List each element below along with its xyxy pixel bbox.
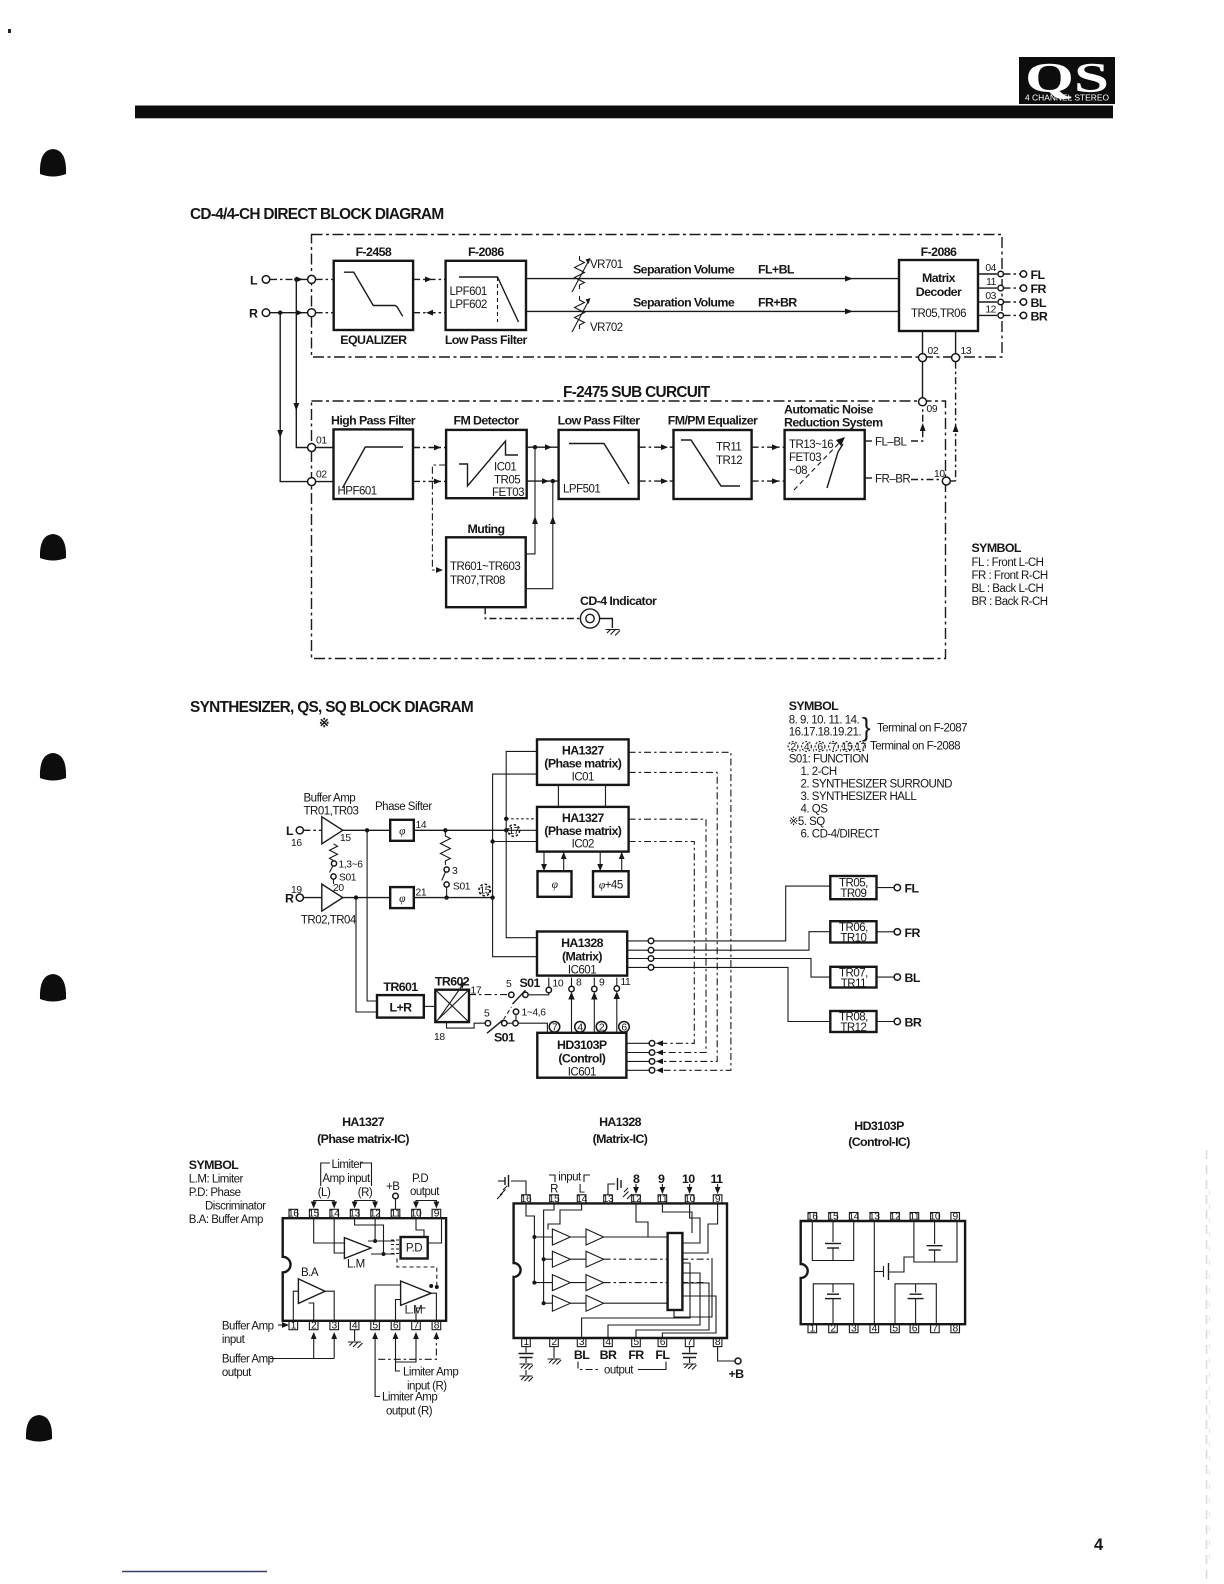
wire LPF to matrix (FR+BR) <box>526 310 899 312</box>
HA1327 body <box>283 1218 446 1321</box>
svg-text:11: 11 <box>909 1212 920 1223</box>
junction dashed tap to IC02 <box>504 817 508 821</box>
svg-text:4: 4 <box>804 742 810 753</box>
svg-text:1,3~6: 1,3~6 <box>339 860 364 871</box>
svg-text:BL: BL <box>905 971 921 985</box>
TR06,TR10 block / FR <box>830 921 920 944</box>
labels 8 9 10 11 with arrows <box>633 1172 723 1194</box>
svg-text:Reduction System: Reduction System <box>784 416 883 430</box>
svg-text:VR702: VR702 <box>590 322 623 334</box>
terminal list on F-2088 <box>788 741 960 754</box>
svg-text:TR09: TR09 <box>840 888 866 900</box>
svg-text:1: 1 <box>291 1320 297 1331</box>
op-amp L.M lower <box>401 1281 432 1317</box>
svg-text:11: 11 <box>391 1209 402 1220</box>
node 17 (circled) <box>508 825 520 837</box>
dashed feedback path <box>397 1259 437 1286</box>
symbol legend pinouts <box>189 1158 266 1226</box>
TR602 (variable mixer) <box>434 975 482 1044</box>
svg-text:17: 17 <box>855 742 866 753</box>
svg-text:2: 2 <box>311 1320 317 1331</box>
svg-text:TR02,TR04: TR02,TR04 <box>301 915 357 927</box>
svg-text:LPF602: LPF602 <box>450 299 487 311</box>
bottom pins 1..8 <box>808 1323 960 1334</box>
wire pin1 to B.A <box>293 1291 298 1321</box>
svg-text:※: ※ <box>319 716 329 730</box>
op-amp L.M upper <box>344 1238 371 1271</box>
svg-text:2: 2 <box>790 742 796 753</box>
svg-text:Buffer Amp: Buffer Amp <box>304 793 356 805</box>
IC02 right wire 2 to HD3103P <box>629 842 695 1044</box>
wire FM/PM to ANRS (bottom) <box>752 480 785 482</box>
svg-text:10: 10 <box>553 979 564 990</box>
svg-text:15: 15 <box>308 1209 319 1220</box>
cap + ground pin7 <box>682 1347 697 1370</box>
svg-text:FR: FR <box>628 1348 644 1362</box>
pin 8 terminal with arrow <box>568 978 582 1033</box>
potentiometer VR702 <box>572 296 623 334</box>
junction tap to IC02 lower <box>490 839 494 843</box>
svg-text:P.D: P.D <box>406 1243 422 1255</box>
svg-text:(Phase matrix-IC): (Phase matrix-IC) <box>317 1132 409 1146</box>
svg-text:(R): (R) <box>358 1187 373 1199</box>
svg-text:IC601: IC601 <box>568 1067 596 1079</box>
svg-text:,: , <box>853 743 855 754</box>
svg-text:IC01: IC01 <box>572 772 594 784</box>
wire L.M lower out to pin8 <box>431 1293 436 1321</box>
wire B.A out <box>325 1291 334 1321</box>
wire FM/PM to ANRS (top) <box>752 446 785 448</box>
svg-text:02: 02 <box>928 346 939 357</box>
junction R on vertical <box>490 895 494 899</box>
svg-text:FR : Front R-CH: FR : Front R-CH <box>972 570 1048 582</box>
wire HPF to FM det (top) <box>413 447 446 449</box>
svg-text:16: 16 <box>521 1194 532 1205</box>
top pins 16..9 <box>807 1212 960 1223</box>
vertical R to TR601 <box>356 898 377 1012</box>
junction L on vertical <box>504 828 508 832</box>
output pin 12 / BR <box>978 304 1048 323</box>
svg-text:8. 9. 10. 11. 14.: 8. 9. 10. 11. 14. <box>789 715 860 727</box>
svg-text:EQUALIZER: EQUALIZER <box>340 333 407 347</box>
wire node-L to equalizer <box>316 278 334 280</box>
svg-text:~08: ~08 <box>789 465 807 477</box>
wire matrix pin02 down <box>922 331 924 354</box>
wire HA1328 out1 to TR05 <box>654 886 831 941</box>
node 13 <box>952 354 960 362</box>
wire pin7 stub <box>416 1308 426 1321</box>
svg-text:15: 15 <box>549 1194 560 1205</box>
varicap cell top-left <box>812 1221 853 1261</box>
symbol legend diagram 1 <box>972 541 1048 608</box>
svg-text:4: 4 <box>872 1323 878 1334</box>
svg-text:SYMBOL: SYMBOL <box>189 1158 239 1172</box>
svg-text:input: input <box>558 1172 582 1184</box>
svg-text:TR601: TR601 <box>383 980 418 994</box>
svg-text:F-2475 SUB CURCUIT: F-2475 SUB CURCUIT <box>563 384 711 401</box>
svg-text:SYMBOL: SYMBOL <box>972 541 1022 555</box>
phase shifter box R <box>390 887 414 908</box>
svg-text:6. CD-4/DIRECT: 6. CD-4/DIRECT <box>801 829 880 841</box>
node 10 <box>942 477 950 485</box>
junction at resistor 3 <box>443 828 447 832</box>
label (R) with arrows to pins 13,12 <box>352 1187 378 1209</box>
svg-text:10: 10 <box>682 1172 695 1186</box>
right edge scan artifact <box>1206 1150 1208 1584</box>
ground pin2 <box>548 1347 562 1365</box>
svg-text:,: , <box>812 743 814 754</box>
svg-text:2: 2 <box>551 1337 557 1348</box>
terminal 4 (circled) <box>575 1022 586 1034</box>
svg-text:6: 6 <box>817 742 823 753</box>
wire node01 to HPF <box>316 447 334 449</box>
matrix amp row 4 <box>552 1295 603 1311</box>
svg-text:13: 13 <box>349 1209 360 1220</box>
left vertical bus R (to IC01 / IC02 / HA1328) <box>493 774 537 957</box>
svg-text:φ: φ <box>399 893 406 905</box>
svg-text:Decoder: Decoder <box>916 285 962 299</box>
svg-text:16.17.18.19.21.: 16.17.18.19.21. <box>789 727 862 739</box>
wire phase shifter L to node 17 <box>414 829 506 831</box>
output bracket <box>578 1362 666 1377</box>
svg-text:5: 5 <box>892 1323 898 1334</box>
svg-text:(Control): (Control) <box>558 1052 605 1066</box>
buffer amp TR02,TR04 (triangle) <box>303 897 321 899</box>
svg-text:3: 3 <box>452 866 458 877</box>
svg-text:TR601~TR603: TR601~TR603 <box>450 561 520 573</box>
high pass filter <box>331 414 416 500</box>
IC01 right wire 1 to HD3103P <box>629 752 731 1070</box>
svg-text:7: 7 <box>831 742 837 753</box>
arrows IC02 to phi boxes <box>541 852 625 872</box>
svg-text:+B: +B <box>729 1367 745 1381</box>
svg-text:LPF601: LPF601 <box>450 286 487 298</box>
svg-text:R: R <box>249 307 258 321</box>
cap + ground at pin 13 <box>608 1178 632 1199</box>
varicap cell bottom-left <box>813 1284 853 1324</box>
TR601 L+R block <box>377 980 424 1018</box>
summing block <box>668 1233 683 1310</box>
svg-text:7: 7 <box>413 1320 419 1331</box>
svg-text:FM Detector: FM Detector <box>454 414 520 428</box>
svg-text:HA1327: HA1327 <box>562 744 605 758</box>
svg-text:5: 5 <box>372 1320 378 1331</box>
wire pin2 stub <box>309 1303 314 1321</box>
node L on board edge <box>308 275 316 283</box>
svg-text:L.M: L.M <box>405 1305 423 1317</box>
automatic noise reduction system <box>784 403 883 500</box>
input bus pin16 <box>526 1203 552 1282</box>
muting block <box>446 522 526 607</box>
svg-text:10: 10 <box>684 1194 695 1205</box>
svg-text:9: 9 <box>599 978 605 989</box>
label P.D output with arrows to pins 10,9 <box>410 1173 440 1209</box>
node R on board edge <box>308 309 316 317</box>
top pins 16..9 <box>288 1209 441 1220</box>
svg-text:01: 01 <box>316 436 327 447</box>
label input bracket <box>549 1172 590 1184</box>
wire L drop to node 01 <box>296 279 307 447</box>
output wire pin4 BR <box>608 1273 700 1338</box>
svg-text:15: 15 <box>479 886 490 897</box>
svg-text:output: output <box>222 1367 252 1379</box>
svg-text:L: L <box>250 274 258 288</box>
FM/PM equalizer <box>668 414 758 500</box>
svg-text:02: 02 <box>316 470 327 481</box>
varicap cell top-right <box>914 1221 957 1262</box>
footer blue rule <box>122 1571 267 1573</box>
wire R drop to node 02 <box>280 313 307 482</box>
svg-text:,: , <box>799 743 801 754</box>
svg-text:FET03: FET03 <box>789 452 821 464</box>
svg-text:TR11: TR11 <box>716 442 741 454</box>
wire node-R to equalizer <box>316 312 334 314</box>
phi+45 box <box>593 871 629 897</box>
svg-text:12: 12 <box>370 1209 381 1220</box>
cap + double ground pin1 <box>519 1347 534 1382</box>
svg-text:BR: BR <box>905 1016 922 1030</box>
svg-text:output: output <box>604 1365 634 1377</box>
wire node02 to node09 <box>922 362 924 398</box>
svg-text:8: 8 <box>633 1172 640 1186</box>
svg-text:Buffer Amp: Buffer Amp <box>222 1321 274 1333</box>
svg-text:S01: S01 <box>494 1031 515 1045</box>
svg-text:,: , <box>826 743 828 754</box>
svg-text:2. SYNTHESIZER SURROUND: 2. SYNTHESIZER SURROUND <box>801 779 953 791</box>
input bus pin15 R <box>544 1203 554 1303</box>
svg-text:1. 2-CH: 1. 2-CH <box>801 766 837 778</box>
wire pin13 junction <box>355 1218 384 1254</box>
svg-text:5: 5 <box>484 1009 490 1020</box>
svg-text:CD-4 Indicator: CD-4 Indicator <box>580 594 657 608</box>
corner speck <box>8 29 11 33</box>
svg-text:4: 4 <box>352 1320 358 1331</box>
svg-text:FET03: FET03 <box>492 487 524 499</box>
HD3103P control <box>537 1033 626 1079</box>
wire ANRS FL-BL out <box>865 440 872 442</box>
svg-text:BL: BL <box>574 1348 590 1362</box>
node 01 on sub board edge <box>308 444 316 452</box>
node 15 (circled) <box>479 884 491 896</box>
svg-text:HA1327: HA1327 <box>342 1115 385 1129</box>
svg-text:(Matrix-IC): (Matrix-IC) <box>593 1132 648 1146</box>
svg-text:P.D: P.D <box>412 1173 428 1185</box>
wire HA1328 out3 to TR07 <box>654 959 831 978</box>
wire EQ to LPF (top) <box>413 278 446 280</box>
switch blade S01 left <box>330 866 333 873</box>
svg-text:Matrix: Matrix <box>922 271 956 285</box>
svg-text:14: 14 <box>576 1194 587 1205</box>
svg-text:Terminal on F-2088: Terminal on F-2088 <box>870 741 960 753</box>
svg-text:4: 4 <box>605 1337 611 1348</box>
terminal 6 (circled) <box>619 1022 630 1034</box>
svg-text:6: 6 <box>393 1320 399 1331</box>
svg-text:S01: S01 <box>339 873 357 884</box>
svg-text:HA1328: HA1328 <box>599 1115 642 1129</box>
buffer amp TR01,TR03 (triangle) <box>303 829 321 831</box>
switch S01 lower <box>447 1007 547 1045</box>
wire switch lower to pin 7 <box>518 1023 547 1033</box>
svg-text:(Phase matrix): (Phase matrix) <box>544 824 621 838</box>
svg-text:TR11: TR11 <box>841 978 866 990</box>
svg-text:03: 03 <box>985 291 996 302</box>
svg-text:1~4,6: 1~4,6 <box>522 1008 547 1019</box>
svg-text:TR10: TR10 <box>840 933 866 945</box>
svg-text:HD3103P: HD3103P <box>854 1119 904 1133</box>
svg-text:09: 09 <box>927 404 938 415</box>
svg-text:IC01: IC01 <box>494 462 516 474</box>
left vertical bus L (to IC01 / HA1328) <box>506 751 537 937</box>
wire summing bottom <box>674 1258 712 1317</box>
svg-text:BR : Back R-CH: BR : Back R-CH <box>972 596 1048 608</box>
bottom pins 1..8 <box>522 1337 722 1348</box>
svg-text:6: 6 <box>912 1323 918 1334</box>
svg-text:18: 18 <box>434 1032 445 1043</box>
wire HA1328 out4 to TR08 <box>654 967 831 1021</box>
svg-text:TR05,TR06: TR05,TR06 <box>911 308 966 320</box>
svg-text:R: R <box>285 892 294 906</box>
IC01 right wire 2 to HD3103P <box>629 772 718 1061</box>
svg-text:LPF501: LPF501 <box>563 484 600 496</box>
svg-text:(L): (L) <box>318 1187 331 1199</box>
top wires pins 11,10,9 <box>662 1203 692 1233</box>
svg-text:FL: FL <box>905 882 920 896</box>
svg-text:3: 3 <box>579 1337 585 1348</box>
wire node02 to HPF <box>316 481 334 483</box>
svg-text:CD-4/4-CH DIRECT BLOCK DIAGRAM: CD-4/4-CH DIRECT BLOCK DIAGRAM <box>190 206 443 223</box>
svg-text:4: 4 <box>1094 1536 1104 1554</box>
svg-text:Low Pass Filter: Low Pass Filter <box>445 333 528 347</box>
HA1328 matrix <box>537 932 627 977</box>
wire FMdet to LPF501 (top) <box>527 446 559 448</box>
node 02 on sub board edge <box>308 478 316 486</box>
svg-text:Limiter Amp: Limiter Amp <box>403 1367 458 1379</box>
wire TR602 to switch S01 (pin 17) <box>469 994 508 996</box>
svg-text:7: 7 <box>932 1323 938 1334</box>
wire pin12 down <box>636 1203 648 1237</box>
wire matrix pin13 down <box>955 331 957 354</box>
svg-text:φ: φ <box>399 826 406 838</box>
svg-text:F-2086: F-2086 <box>468 245 504 259</box>
board F-2087 outline (upper dash-dot box) <box>312 235 1003 358</box>
svg-text:R: R <box>550 1184 558 1196</box>
wire phase shifter R to vertical <box>414 897 493 899</box>
resistor to switch S01 (left) <box>330 844 338 861</box>
node 02 <box>919 354 927 362</box>
svg-text:16: 16 <box>291 838 302 849</box>
svg-text:FM/PM Equalizer: FM/PM Equalizer <box>668 414 758 428</box>
svg-text:Low Pass Filter: Low Pass Filter <box>558 414 641 428</box>
label buffer amp input <box>222 1321 289 1347</box>
output pin 03 / BL <box>978 291 1047 310</box>
wire FMdet to muting left <box>432 465 446 570</box>
svg-text:12: 12 <box>985 304 996 315</box>
svg-text:output: output <box>410 1186 440 1198</box>
binder blob 5 <box>26 1415 52 1442</box>
header rule bar <box>135 106 1113 119</box>
svg-text:B.A: B.A <box>301 1267 319 1279</box>
svg-text:4. QS: 4. QS <box>801 804 829 816</box>
wire LPF501 to FM/PM EQ (top) <box>639 446 674 448</box>
svg-text:P.D: Phase: P.D: Phase <box>189 1187 241 1199</box>
wire pin8 to +B <box>718 1347 745 1381</box>
center FET <box>874 1221 914 1324</box>
input wire pin14 L <box>548 1203 582 1229</box>
svg-text:16: 16 <box>288 1209 299 1220</box>
contact 3 <box>444 867 449 872</box>
svg-text:BL: BL <box>1031 296 1047 310</box>
svg-text:FL+BL: FL+BL <box>758 263 795 277</box>
svg-text:Separation Volume: Separation Volume <box>633 296 735 310</box>
svg-text:,: , <box>839 743 841 754</box>
wire muting bottom tap <box>526 481 553 589</box>
svg-text:L: L <box>286 824 294 838</box>
switch blade S01 mid <box>442 872 446 881</box>
svg-text:B.A: Buffer Amp: B.A: Buffer Amp <box>189 1214 263 1226</box>
svg-text:HPF601: HPF601 <box>338 486 377 498</box>
svg-text:8: 8 <box>434 1320 440 1331</box>
phi box <box>538 871 572 897</box>
matrix amp row 2 <box>552 1251 603 1267</box>
HA1327 IC02 <box>537 807 629 852</box>
wire L to phase shifter <box>343 829 390 831</box>
svg-text:IC02: IC02 <box>572 839 594 851</box>
ground (CD-4 indicator) <box>606 630 621 636</box>
svg-text:TR01,TR03: TR01,TR03 <box>304 806 359 818</box>
svg-text:TR12: TR12 <box>840 1022 866 1034</box>
varicap cell bottom-right <box>895 1284 936 1324</box>
svg-text:FL–BL: FL–BL <box>875 437 907 449</box>
wire HPF to FM det (bottom) <box>413 480 446 482</box>
wire node17 into IC02 <box>506 829 537 831</box>
svg-text:}: } <box>862 712 871 742</box>
svg-text:IC601: IC601 <box>568 965 596 977</box>
svg-text:FR: FR <box>905 926 921 940</box>
amp outputs to summing <box>604 1236 668 1238</box>
wire L input <box>270 278 308 280</box>
svg-text:SYNTHESIZER, QS, SQ BLOCK DIAG: SYNTHESIZER, QS, SQ BLOCK DIAGRAM <box>190 699 473 716</box>
svg-text:FL: FL <box>1031 268 1046 282</box>
svg-text:4 CHANNEL STEREO: 4 CHANNEL STEREO <box>1025 93 1109 103</box>
svg-text:※5. SQ: ※5. SQ <box>789 816 826 828</box>
svg-text:10: 10 <box>411 1209 422 1220</box>
symbol legend diagram 2 <box>789 699 967 742</box>
svg-text:HA1328: HA1328 <box>561 936 604 950</box>
output wire pin6 FL <box>662 1296 716 1338</box>
label limiter amp input (R) <box>375 1332 458 1393</box>
svg-text:Amp input: Amp input <box>322 1173 371 1185</box>
wire LPF501 to FM/PM EQ (bottom) <box>639 480 674 482</box>
wire LPF to matrix (FL+BL) <box>526 278 899 280</box>
QS logo <box>1019 56 1115 104</box>
svg-text:input: input <box>222 1334 246 1346</box>
low pass filter 501 <box>558 414 641 500</box>
svg-text:Limiter Amp: Limiter Amp <box>382 1392 437 1404</box>
wire switch to pin 10 <box>528 993 549 995</box>
svg-text:8: 8 <box>715 1337 721 1348</box>
svg-text:BR: BR <box>1031 309 1048 323</box>
binder blob 3 <box>40 753 66 781</box>
svg-text:HD3103P: HD3103P <box>557 1038 607 1052</box>
svg-text:S01: FUNCTION: S01: FUNCTION <box>789 754 869 766</box>
node 09 <box>919 398 927 406</box>
top pins 16..9 <box>521 1194 722 1205</box>
pin 9 terminal with arrow <box>591 978 605 1033</box>
low pass filter F-2086 <box>445 245 528 347</box>
svg-text:FR: FR <box>1031 282 1047 296</box>
svg-text:8: 8 <box>953 1323 959 1334</box>
svg-text:5: 5 <box>506 979 512 990</box>
